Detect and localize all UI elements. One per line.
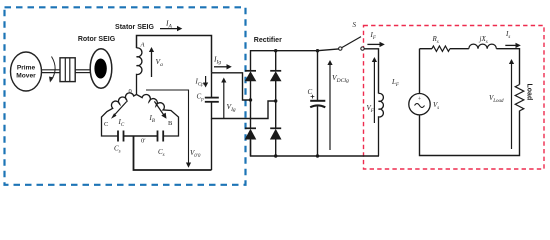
voltage V_0'0 arrow (node 0 to 0' bus) <box>146 90 189 164</box>
voltage V_DCIg arrow <box>329 64 331 150</box>
SEIG system boundary (blue dashed box) <box>5 7 246 185</box>
stator winding A <box>137 48 142 95</box>
diode D2 (top right) <box>270 70 281 72</box>
shaft right <box>75 69 90 71</box>
diode D1 (top left) <box>245 70 256 72</box>
wire: rail between R_s and jX_s <box>450 48 469 50</box>
svg-text:Prime: Prime <box>17 65 36 72</box>
wire: rectifier top rail to switch <box>251 49 339 70</box>
wire: phase A top rail <box>137 36 212 73</box>
current I_Cp arrow <box>205 76 207 84</box>
AC source V_s <box>409 94 430 115</box>
voltage V_F arrow <box>373 61 375 123</box>
wire: DC bottom rail <box>251 140 380 156</box>
svg-text:B: B <box>168 120 173 127</box>
svg-text:Load: Load <box>526 84 533 101</box>
capacitor Cs (left) <box>117 131 119 142</box>
voltage V_Load arrow <box>511 63 513 149</box>
load resistor <box>515 85 524 111</box>
capacitor C (DC link) <box>317 51 319 101</box>
current I_s <box>505 44 516 46</box>
wire: source branch top <box>419 49 421 94</box>
inductor L_F <box>379 93 384 156</box>
svg-text:S: S <box>353 21 357 29</box>
voltage V_a arrow <box>151 51 153 77</box>
resistor R_s <box>432 46 450 51</box>
svg-text:Rectifier: Rectifier <box>254 37 282 44</box>
current I_lg <box>214 66 228 68</box>
node: bottom rail / right leg <box>274 154 277 157</box>
svg-text:Stator SEIG: Stator SEIG <box>115 24 154 31</box>
stator winding B (to lower-right) <box>137 94 179 136</box>
coupling <box>60 58 75 82</box>
voltage V_lg arrow <box>223 82 225 119</box>
wire: right leg top <box>275 51 277 70</box>
svg-text:Rotor SEIG: Rotor SEIG <box>78 36 116 43</box>
wire: switch to filter branch <box>364 49 378 94</box>
prime mover <box>11 52 42 91</box>
diode D3 (bottom left) <box>245 127 256 129</box>
capacitor Cp <box>205 97 219 99</box>
node: left leg input junction <box>249 98 252 101</box>
rotor SEIG <box>90 49 112 89</box>
wire: to rectifier top input <box>212 73 251 100</box>
wire: inner top rail left <box>420 48 433 50</box>
capacitor Cs (right) <box>157 131 159 142</box>
wire: Cp bottom to rectifier lower input <box>212 101 276 119</box>
node: right leg lower input <box>274 99 277 102</box>
wire: branch continues to bottom bus <box>211 119 213 171</box>
wire: phase branch down to Cp <box>211 73 213 98</box>
switch S <box>339 47 342 50</box>
wire: rail to load corner <box>496 49 519 85</box>
stator winding C (to lower-left) <box>102 93 137 136</box>
svg-text:0: 0 <box>129 88 132 95</box>
wire: 0' drop to bottom bus <box>134 136 212 170</box>
diode D4 (bottom right) <box>270 127 281 129</box>
inductor jX_s <box>469 44 497 49</box>
svg-text:Mover: Mover <box>16 73 36 80</box>
svg-text:C: C <box>104 121 108 128</box>
shaft left <box>42 69 61 71</box>
rotation arrow <box>51 57 55 81</box>
node: top rail / right leg <box>274 49 277 52</box>
current I_C arrow <box>114 101 127 116</box>
current I_B arrow <box>154 101 164 116</box>
current I_A <box>160 28 178 30</box>
svg-text:A: A <box>140 42 145 49</box>
wire: capacitor bus middle <box>124 135 158 137</box>
wire: source bottom + load bottom rail <box>420 111 520 156</box>
svg-text:0′: 0′ <box>141 138 146 145</box>
grid-side boundary (red dashed box) <box>364 26 545 170</box>
svg-text:+: + <box>310 92 315 101</box>
current I_F <box>367 43 380 45</box>
